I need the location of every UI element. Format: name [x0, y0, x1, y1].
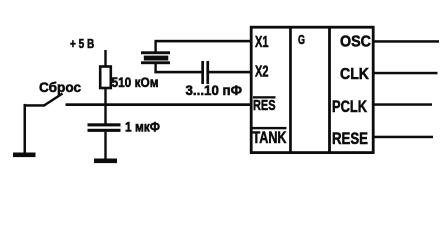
svg-text:X1: X1 — [255, 34, 269, 51]
wire OSC output — [375, 40, 440, 43]
ground middle — [94, 159, 117, 164]
svg-text:RES: RES — [253, 97, 276, 114]
op-amp U1 outer box — [251, 27, 373, 152]
crystal ZQ1 top plate — [141, 51, 170, 54]
capacitor C1 left plate — [201, 61, 204, 84]
svg-text:RESE: RESE — [332, 130, 368, 148]
svg-text:+ 5 В: + 5 В — [70, 36, 94, 51]
wire switch branch down — [24, 104, 27, 153]
svg-text:3...10 пФ: 3...10 пФ — [186, 83, 243, 98]
wire C2 to ground — [104, 132, 106, 159]
pin label RES (overline) — [253, 96, 276, 98]
svg-text:PCLK: PCLK — [332, 98, 367, 116]
U1 divider right — [328, 27, 331, 152]
wire X2 net left segment — [154, 71, 202, 74]
wire RES node to C2 — [104, 105, 106, 124]
ground left — [13, 153, 36, 158]
capacitor C2 bottom plate — [88, 129, 121, 132]
svg-text:X2: X2 — [255, 64, 269, 81]
svg-text:G: G — [298, 32, 305, 47]
wire X2 net right segment — [209, 71, 252, 74]
svg-text:CLK: CLK — [340, 66, 369, 83]
wire R1 bottom to RES node — [104, 88, 106, 105]
switch SB1 blade — [44, 94, 63, 106]
svg-text:Сброс: Сброс — [39, 79, 81, 95]
capacitor C2 top plate — [88, 123, 121, 126]
crystal ZQ1 body — [144, 56, 169, 61]
pin label TANK (overline) — [253, 127, 287, 129]
wire X1 net — [154, 40, 251, 43]
wire crystal to X2 net — [154, 64, 156, 73]
U1 divider left — [289, 27, 292, 152]
wire RES net (switch to IC) — [66, 103, 252, 106]
wire +5V to R1 — [104, 50, 106, 67]
capacitor C1 right plate — [206, 61, 209, 84]
resistor R1 — [100, 67, 111, 89]
svg-text:1 мкФ: 1 мкФ — [125, 120, 160, 135]
svg-text:OSC: OSC — [340, 34, 371, 51]
wire X1 to crystal — [154, 42, 156, 52]
svg-text:TANK: TANK — [253, 129, 287, 147]
svg-text:510 кОм: 510 кОм — [112, 75, 159, 90]
wire CLK output — [375, 72, 438, 75]
crystal ZQ1 bottom plate — [141, 61, 170, 64]
wire RESE output — [375, 136, 434, 139]
wire switch left segment — [24, 104, 46, 107]
wire PCLK output — [375, 103, 433, 106]
